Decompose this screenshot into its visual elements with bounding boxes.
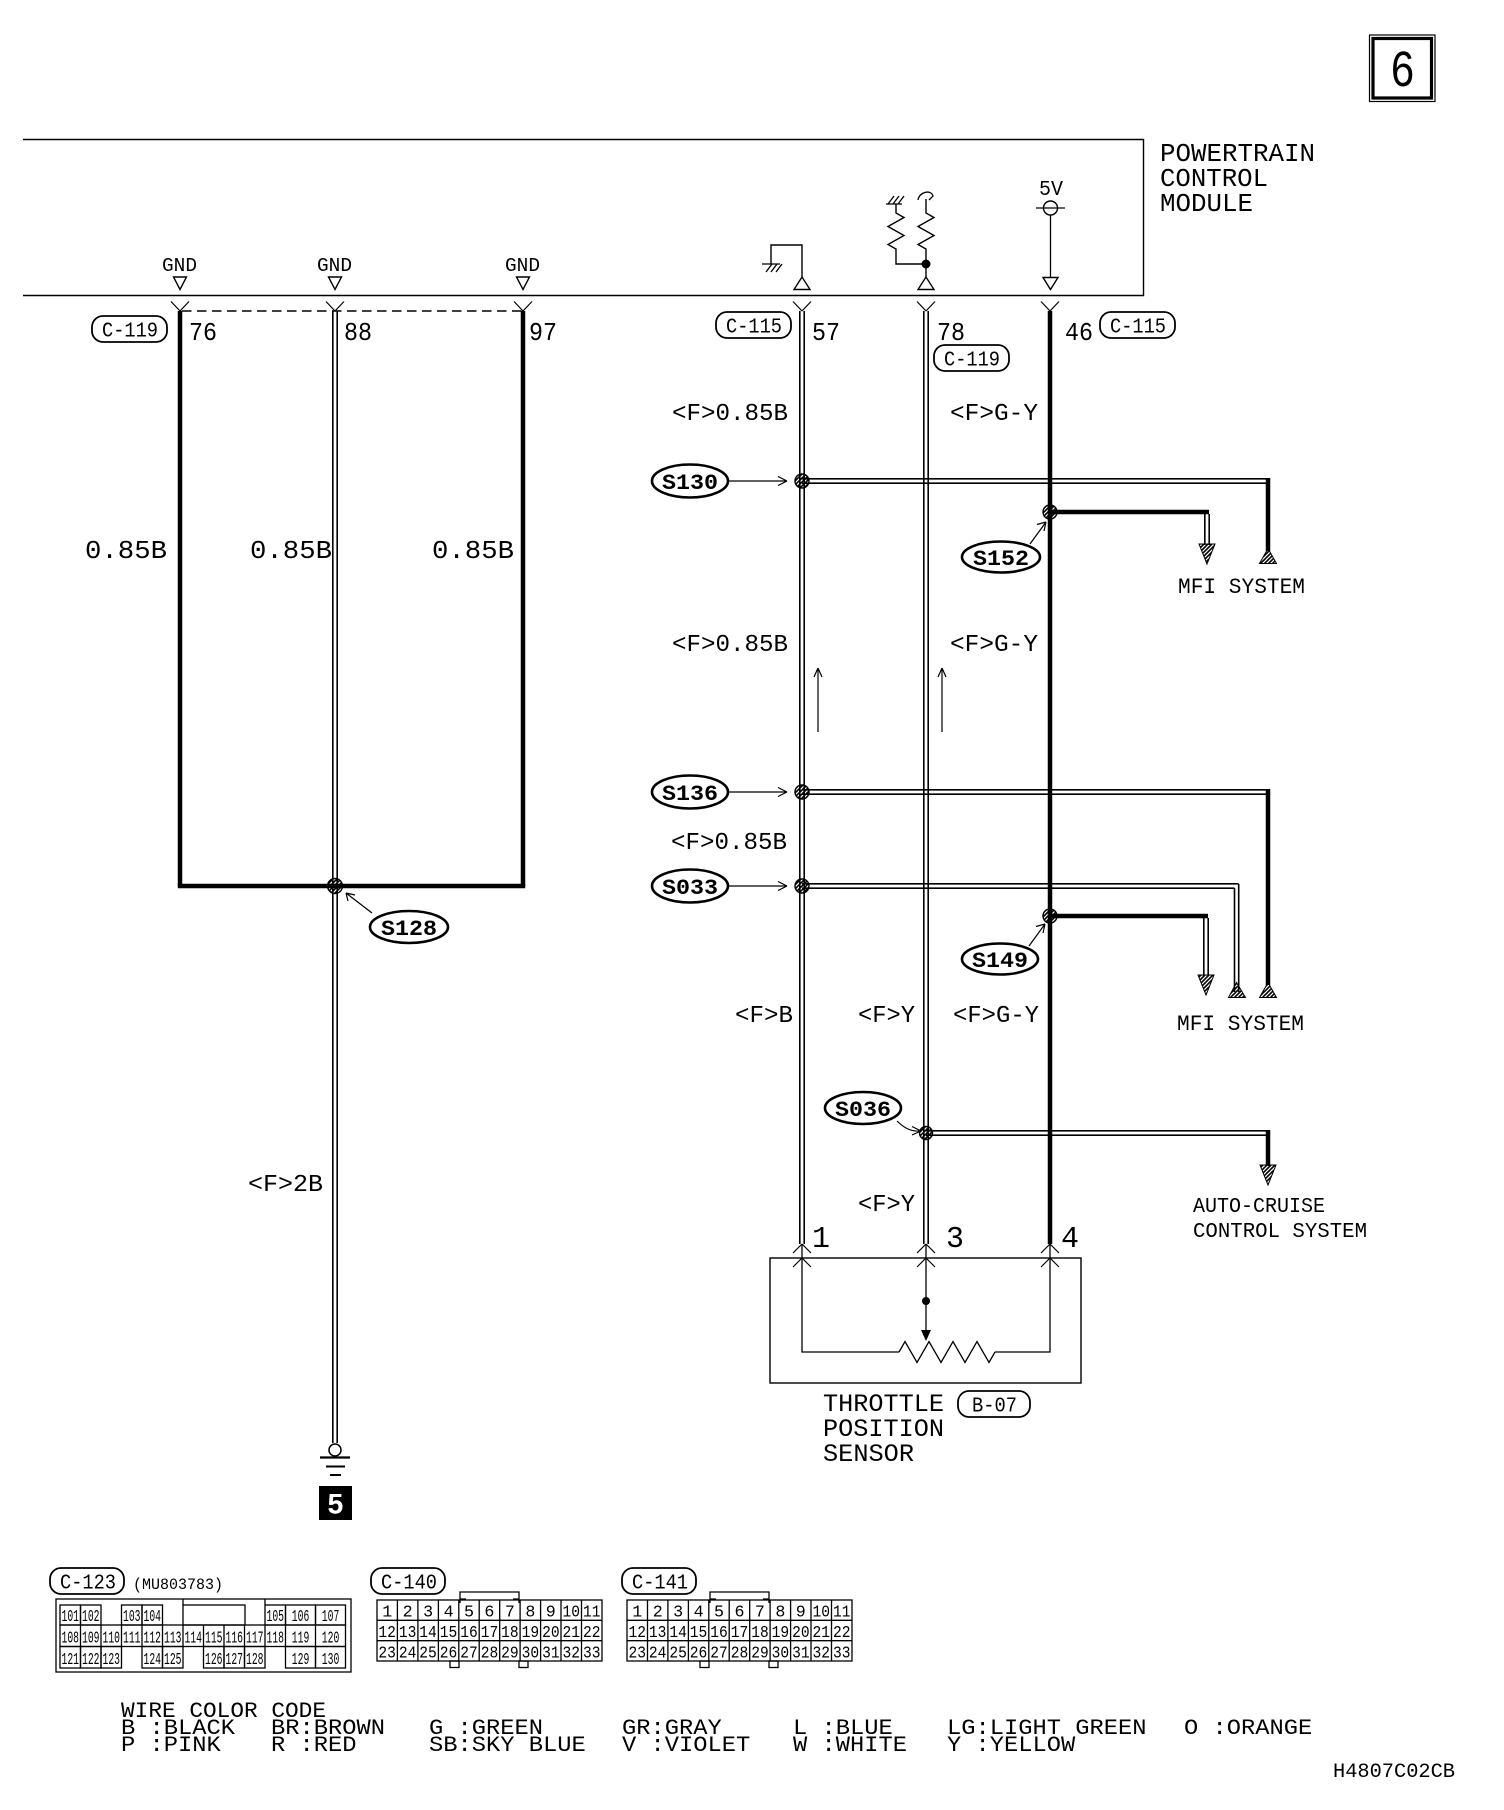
svg-text:33: 33 <box>583 1645 601 1664</box>
svg-text:13: 13 <box>649 1624 667 1643</box>
svg-text:GND: GND <box>162 255 197 277</box>
splice S130 label <box>652 465 787 498</box>
svg-text:123: 123 <box>103 1651 121 1670</box>
svg-text:C-140: C-140 <box>381 1573 437 1596</box>
wire S136 bend down (thick) <box>1266 790 1271 985</box>
svg-text:18: 18 <box>751 1624 769 1643</box>
splice S136 label <box>652 776 787 809</box>
svg-text:S128: S128 <box>381 917 437 942</box>
TPS pin 3 wiper lead <box>925 1244 927 1332</box>
arrow to auto-cruise (down) <box>1260 1165 1276 1185</box>
wire pin 57 (double line) <box>800 311 804 1244</box>
svg-text:5: 5 <box>464 1604 474 1623</box>
splice S152 label <box>962 522 1046 573</box>
svg-text:R :RED: R :RED <box>271 1733 357 1758</box>
svg-text:28: 28 <box>731 1645 749 1664</box>
wire S152 bend down (double line) <box>1205 510 1209 545</box>
svg-text:2: 2 <box>653 1604 663 1623</box>
svg-text:130: 130 <box>322 1651 340 1670</box>
svg-text:GND: GND <box>505 255 540 277</box>
wire pin 76, 0.85B <box>178 311 183 886</box>
svg-text:MFI SYSTEM: MFI SYSTEM <box>1178 575 1305 600</box>
svg-text:CONTROL SYSTEM: CONTROL SYSTEM <box>1193 1221 1367 1244</box>
label THROTTLE POSITION SENSOR <box>823 1390 944 1469</box>
svg-text:24: 24 <box>649 1645 667 1664</box>
PCM internal: resistor pull-up (right) <box>918 192 934 277</box>
connector label C-141 <box>622 1568 696 1596</box>
svg-text:32: 32 <box>813 1645 831 1664</box>
svg-text:<F>G-Y: <F>G-Y <box>950 632 1038 659</box>
svg-text:1: 1 <box>382 1604 392 1623</box>
svg-text:S136: S136 <box>662 782 718 807</box>
svg-text:<F>0.85B: <F>0.85B <box>672 632 788 659</box>
svg-text:15: 15 <box>690 1624 708 1643</box>
C-140 pin numbers <box>378 1604 600 1664</box>
svg-text:16: 16 <box>710 1624 728 1643</box>
arrow to MFI (down, from S152 wire) <box>1199 544 1215 564</box>
svg-text:(MU803783): (MU803783) <box>133 1576 223 1594</box>
svg-text:27: 27 <box>460 1645 478 1664</box>
svg-text:0.85B: 0.85B <box>85 536 167 566</box>
wire from S033 to MFI system (double line) <box>802 884 1239 888</box>
svg-text:S036: S036 <box>835 1098 891 1123</box>
wire S130 bend down (thick) <box>1266 479 1271 551</box>
svg-text:1: 1 <box>812 1222 830 1257</box>
svg-text:7: 7 <box>505 1604 515 1623</box>
svg-text:23: 23 <box>629 1645 647 1664</box>
svg-text:24: 24 <box>399 1645 417 1664</box>
svg-text:118: 118 <box>267 1630 285 1649</box>
ground reference box 5 <box>319 1486 352 1524</box>
svg-text:22: 22 <box>583 1624 601 1643</box>
svg-text:C-123: C-123 <box>60 1573 116 1596</box>
svg-text:0.85B: 0.85B <box>432 536 514 566</box>
svg-text:107: 107 <box>322 1608 340 1627</box>
PCM internal: resistor to chassis (left) <box>886 196 926 264</box>
svg-text:78: 78 <box>937 318 965 348</box>
svg-text:C-115: C-115 <box>726 317 782 340</box>
TPS pin 3 chevron inside <box>917 1258 935 1267</box>
svg-text:125: 125 <box>164 1651 182 1670</box>
PCM internal: junction dot pin 78 <box>922 260 931 269</box>
svg-text:46: 46 <box>1065 318 1093 348</box>
connector chevron pin 78 <box>917 302 935 312</box>
svg-text:19: 19 <box>772 1624 790 1643</box>
svg-text:32: 32 <box>563 1645 581 1664</box>
PCM internal: 5V supply node <box>1036 179 1065 277</box>
connector table C-141 <box>627 1592 852 1668</box>
svg-text:5: 5 <box>327 1490 344 1524</box>
splice S033 dot <box>795 879 809 893</box>
wire (F)2B to ground (double line) <box>333 886 337 1443</box>
svg-text:<F>Y: <F>Y <box>858 1003 915 1030</box>
svg-text:10: 10 <box>563 1604 581 1623</box>
svg-text:17: 17 <box>481 1624 499 1643</box>
svg-text:AUTO-CRUISE: AUTO-CRUISE <box>1193 1196 1325 1219</box>
svg-text:1: 1 <box>632 1604 642 1623</box>
PCM internal: pin 57 triangle terminal <box>794 277 810 290</box>
svg-text:122: 122 <box>82 1651 100 1670</box>
PCM internal: pin 57 ground trace <box>762 245 802 277</box>
svg-text:113: 113 <box>164 1630 182 1649</box>
svg-text:O :ORANGE: O :ORANGE <box>1184 1716 1312 1741</box>
svg-text:76: 76 <box>189 318 217 348</box>
splice S152 dot <box>1043 505 1057 519</box>
svg-text:88: 88 <box>344 318 372 348</box>
svg-text:108: 108 <box>62 1630 80 1649</box>
svg-text:121: 121 <box>62 1651 80 1670</box>
svg-text:5V: 5V <box>1039 179 1063 202</box>
svg-text:97: 97 <box>529 318 557 348</box>
svg-text:119: 119 <box>292 1630 310 1649</box>
svg-text:2: 2 <box>403 1604 413 1623</box>
svg-text:120: 120 <box>322 1630 340 1649</box>
TPS pin 4 chevron inside <box>1041 1258 1059 1267</box>
svg-text:<F>Y: <F>Y <box>858 1192 915 1219</box>
svg-text:4: 4 <box>1061 1222 1079 1257</box>
wire pin 78 (double line) <box>924 311 928 1244</box>
svg-text:6: 6 <box>735 1604 745 1623</box>
wire S033 bend down (double line) <box>1235 884 1239 992</box>
svg-text:5: 5 <box>714 1604 724 1623</box>
svg-text:4: 4 <box>444 1604 454 1623</box>
connector label C-119 mid <box>934 345 1009 373</box>
connector label C-123 <box>50 1568 124 1596</box>
svg-text:13: 13 <box>399 1624 417 1643</box>
svg-text:33: 33 <box>833 1645 851 1664</box>
splice S036 dot <box>920 1127 933 1140</box>
splice S128 label <box>346 893 448 943</box>
dashed harness line between pins 76-88-97 <box>182 310 523 312</box>
C-141 pin numbers <box>629 1604 851 1664</box>
ground symbol <box>320 1444 350 1475</box>
TPS potentiometer resistor <box>899 1342 995 1363</box>
svg-text:S152: S152 <box>973 547 1029 572</box>
svg-text:<F>G-Y: <F>G-Y <box>953 1003 1039 1030</box>
wire color code legend <box>121 1699 1312 1758</box>
wire S149 bend down (double line) <box>1204 914 1208 976</box>
svg-text:26: 26 <box>690 1645 708 1664</box>
svg-text:111: 111 <box>123 1630 141 1649</box>
svg-text:127: 127 <box>226 1651 244 1670</box>
svg-text:25: 25 <box>669 1645 687 1664</box>
svg-text:7: 7 <box>755 1604 765 1623</box>
svg-text:21: 21 <box>813 1624 831 1643</box>
svg-text:20: 20 <box>792 1624 810 1643</box>
pin 4 wire-end chevron <box>1041 1244 1059 1253</box>
svg-text:25: 25 <box>419 1645 437 1664</box>
svg-text:115: 115 <box>205 1630 223 1649</box>
svg-text:S033: S033 <box>662 876 718 901</box>
svg-text:B-07: B-07 <box>972 1396 1017 1419</box>
svg-text:30: 30 <box>772 1645 790 1664</box>
arrow to MFI (up, from S130 wire) <box>1260 549 1277 564</box>
C-123 pin numbers <box>62 1608 340 1670</box>
svg-text:14: 14 <box>669 1624 687 1643</box>
svg-text:18: 18 <box>501 1624 518 1643</box>
svg-text:4: 4 <box>694 1604 704 1623</box>
arrow to MFI (up, from S033 wire) <box>1229 983 1246 998</box>
TPS wiper junction dot <box>922 1297 930 1305</box>
connector table C-140 <box>377 1592 602 1668</box>
svg-text:0.85B: 0.85B <box>250 536 332 566</box>
wire from S036 to auto-cruise (double line) <box>926 1131 1270 1135</box>
svg-text:29: 29 <box>501 1645 518 1664</box>
GND label pin 88 <box>317 255 352 290</box>
svg-text:11: 11 <box>583 1604 601 1623</box>
connector table C-123 <box>56 1599 351 1672</box>
svg-text:105: 105 <box>267 1608 285 1627</box>
pin 1 wire-end chevron <box>793 1244 811 1253</box>
svg-text:6: 6 <box>1390 43 1415 102</box>
connector label B-07 <box>958 1391 1030 1419</box>
svg-text:MODULE: MODULE <box>1160 189 1253 219</box>
wire from S136 to MFI system (double line) <box>802 790 1270 794</box>
svg-text:SENSOR: SENSOR <box>823 1440 914 1469</box>
svg-text:106: 106 <box>292 1608 310 1627</box>
connector chevron pin 76 <box>171 302 189 312</box>
svg-text:28: 28 <box>481 1645 499 1664</box>
wire pin 46 (thick) <box>1048 311 1053 1244</box>
svg-text:17: 17 <box>731 1624 749 1643</box>
svg-text:3: 3 <box>423 1604 433 1623</box>
svg-text:102: 102 <box>82 1608 100 1627</box>
connector label C-119 left <box>92 316 167 344</box>
svg-text:C-119: C-119 <box>944 350 1000 373</box>
TPS pin 4 internal lead <box>995 1244 1050 1352</box>
svg-text:101: 101 <box>62 1608 80 1627</box>
wire from S149 (thick) <box>1050 914 1208 919</box>
svg-text:<F>0.85B: <F>0.85B <box>672 401 788 428</box>
splice S128 dot <box>328 879 343 894</box>
svg-text:30: 30 <box>522 1645 540 1664</box>
svg-text:104: 104 <box>144 1608 162 1627</box>
svg-text:29: 29 <box>751 1645 769 1664</box>
connector label C-115 left <box>716 312 791 340</box>
splice S136 dot <box>795 785 809 799</box>
connector label C-115 right <box>1100 312 1175 340</box>
svg-text:3: 3 <box>673 1604 683 1623</box>
svg-text:114: 114 <box>185 1630 203 1649</box>
label AUTO-CRUISE CONTROL SYSTEM <box>1193 1196 1367 1244</box>
arrow to MFI (up, from S136 wire) <box>1260 983 1277 998</box>
connector chevron pin 97 <box>514 302 532 312</box>
connector label C-140 <box>371 1568 445 1596</box>
svg-text:P :PINK: P :PINK <box>121 1733 222 1758</box>
svg-text:H4807C02CB: H4807C02CB <box>1333 1761 1455 1784</box>
svg-text:129: 129 <box>292 1651 310 1670</box>
svg-text:126: 126 <box>205 1651 223 1670</box>
splice S149 label <box>962 924 1045 975</box>
svg-text:117: 117 <box>246 1630 264 1649</box>
svg-text:MFI SYSTEM: MFI SYSTEM <box>1177 1012 1304 1037</box>
PCM internal: pin 46 arrow terminal <box>1043 278 1058 290</box>
svg-text:C-119: C-119 <box>102 321 158 344</box>
connector chevron pin 46 <box>1041 302 1059 312</box>
connector chevron pin 57 <box>793 302 811 312</box>
svg-text:31: 31 <box>542 1645 560 1664</box>
svg-text:26: 26 <box>440 1645 458 1664</box>
svg-text:<F>B: <F>B <box>735 1003 793 1030</box>
svg-text:<F>0.85B: <F>0.85B <box>671 830 787 857</box>
svg-text:S130: S130 <box>662 471 718 496</box>
splice S130 dot <box>795 474 809 488</box>
wire joining ground wires <box>178 884 525 889</box>
svg-text:C-115: C-115 <box>1110 317 1166 340</box>
svg-text:GND: GND <box>317 255 352 277</box>
svg-text:6: 6 <box>484 1604 494 1623</box>
svg-text:11: 11 <box>833 1604 851 1623</box>
splice S033 label <box>652 870 787 903</box>
svg-text:15: 15 <box>440 1624 458 1643</box>
connector chevron pin 88 <box>326 302 344 312</box>
TPS wiper arrow <box>921 1330 931 1341</box>
svg-text:3: 3 <box>946 1222 964 1257</box>
wire from S130 to MFI system (double line) <box>802 479 1270 483</box>
svg-text:Y :YELLOW: Y :YELLOW <box>947 1733 1076 1758</box>
svg-text:8: 8 <box>775 1604 785 1623</box>
svg-text:19: 19 <box>522 1624 540 1643</box>
svg-text:124: 124 <box>144 1651 162 1670</box>
svg-text:8: 8 <box>525 1604 535 1623</box>
splice S149 dot <box>1043 909 1057 923</box>
svg-text:116: 116 <box>226 1630 244 1649</box>
wire pin 97, 0.85B <box>521 311 526 886</box>
svg-text:109: 109 <box>82 1630 100 1649</box>
svg-text:14: 14 <box>419 1624 437 1643</box>
svg-text:110: 110 <box>103 1630 121 1649</box>
svg-text:21: 21 <box>563 1624 581 1643</box>
sheet number box 6 <box>1370 35 1436 102</box>
flow arrow up wire 78 <box>938 668 946 732</box>
svg-text:27: 27 <box>710 1645 728 1664</box>
wire pin 88, 0.85B (double line) <box>333 311 337 886</box>
PCM internal: pin 78 triangle terminal <box>918 277 934 290</box>
wire S036 bend down (thick) <box>1266 1131 1271 1166</box>
svg-text:57: 57 <box>812 318 840 348</box>
svg-text:22: 22 <box>833 1624 851 1643</box>
TPS pin 1 internal lead <box>802 1244 899 1352</box>
svg-text:SB:SKY BLUE: SB:SKY BLUE <box>429 1733 586 1758</box>
pin 3 wire-end chevron <box>917 1244 935 1253</box>
svg-text:128: 128 <box>246 1651 264 1670</box>
svg-text:<F>G-Y: <F>G-Y <box>950 401 1038 428</box>
svg-text:10: 10 <box>813 1604 831 1623</box>
svg-text:9: 9 <box>796 1604 806 1623</box>
TPS pin 1 chevron inside <box>793 1258 811 1267</box>
svg-text:C-141: C-141 <box>632 1573 688 1596</box>
svg-text:31: 31 <box>792 1645 810 1664</box>
svg-text:W :WHITE: W :WHITE <box>793 1733 907 1758</box>
svg-text:<F>2B: <F>2B <box>248 1172 323 1199</box>
throttle position sensor box <box>770 1258 1081 1383</box>
GND label pin 76 <box>162 255 197 290</box>
wire from S152 (thick) <box>1050 510 1209 515</box>
svg-text:23: 23 <box>378 1645 396 1664</box>
svg-text:S149: S149 <box>972 949 1028 974</box>
arrow to MFI (down, from S149 wire) <box>1198 975 1214 995</box>
svg-text:112: 112 <box>144 1630 162 1649</box>
svg-text:103: 103 <box>123 1608 141 1627</box>
PCM module box: POWERTRAIN CONTROL MODULE <box>23 139 1315 296</box>
svg-text:V :VIOLET: V :VIOLET <box>622 1733 750 1758</box>
splice S036 label <box>825 1092 921 1135</box>
svg-text:20: 20 <box>542 1624 560 1643</box>
svg-text:12: 12 <box>378 1624 396 1643</box>
svg-text:16: 16 <box>460 1624 478 1643</box>
flow arrow up wire 57 <box>814 668 822 732</box>
svg-text:12: 12 <box>629 1624 647 1643</box>
GND label pin 97 <box>505 255 540 290</box>
svg-text:9: 9 <box>546 1604 556 1623</box>
